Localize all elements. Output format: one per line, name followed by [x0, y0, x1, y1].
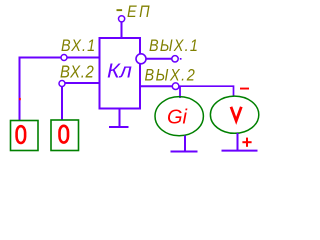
svg-text:Кл: Кл [107, 60, 132, 82]
wire вых.2 to voltmeter [179, 86, 234, 96]
power label Еп [117, 3, 153, 21]
generator ground wire [184, 136, 186, 152]
label 0 source 2 [60, 126, 69, 143]
source box 1 [11, 121, 39, 151]
wire branch to generator [179, 87, 181, 98]
svg-text:ВЫХ.2: ВЫХ.2 [145, 67, 197, 85]
svg-text:ВЫХ.1: ВЫХ.1 [149, 37, 199, 55]
terminal circle Еп [119, 16, 125, 22]
terminal circle вых.2 [172, 83, 179, 90]
wire вых.2 from box [141, 85, 172, 87]
wire вых.1 [146, 58, 172, 60]
voltmeter ellipse V [210, 96, 258, 133]
wire box to ground [119, 109, 121, 128]
plus label voltmeter [242, 138, 251, 147]
wire вх.1 [20, 58, 100, 121]
svg-text:ВХ.1: ВХ.1 [61, 37, 96, 55]
bubble вых.1 on box edge [136, 54, 146, 64]
terminal circle вх.2 [59, 81, 65, 87]
wire вх.2 [62, 83, 99, 120]
svg-text:ВХ.2: ВХ.2 [60, 62, 94, 81]
dot right of вых.1 terminal [180, 58, 182, 60]
voltmeter ground bar [222, 150, 258, 152]
svg-text:ЕП: ЕП [127, 3, 152, 21]
voltmeter ground wire [237, 133, 239, 151]
label 0 source 1 [17, 126, 26, 143]
generator ground bar [171, 151, 198, 153]
source box 2 [51, 120, 79, 151]
switch box Кл [100, 38, 141, 109]
terminal circle вх.1 [61, 55, 67, 61]
label V [231, 107, 241, 121]
minus label voltmeter [240, 88, 249, 90]
svg-text:Gi: Gi [167, 106, 188, 128]
red mark on вх.1 wire [19, 98, 21, 100]
terminal circle вых.1 end [172, 56, 178, 62]
wire Еп to box [121, 22, 123, 39]
generator ellipse Gi [155, 97, 203, 136]
ground bar under box [109, 126, 129, 128]
